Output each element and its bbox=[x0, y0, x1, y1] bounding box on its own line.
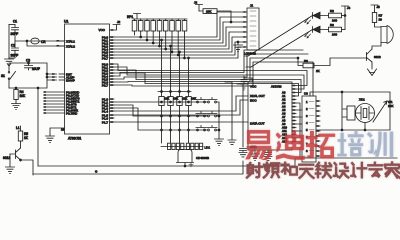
transistor Q1 9012 bbox=[3, 148, 21, 160]
svg-text:CR: CR bbox=[41, 40, 46, 44]
wire LED D2 feed diagonal bbox=[246, 30, 313, 68]
wire P2.0 long bus bbox=[114, 64, 307, 86]
svg-text:XTAL1: XTAL1 bbox=[66, 39, 75, 43]
wire U1 P1.7 to U2 DATA bbox=[114, 121, 248, 123]
resistor R7 bbox=[372, 11, 382, 27]
svg-text:10UF: 10UF bbox=[32, 67, 40, 71]
svg-text:CD4066B: CD4066B bbox=[196, 156, 209, 160]
wire keypad row3 bbox=[114, 108, 207, 131]
crystal CR1 bbox=[15, 38, 65, 44]
wire segment columns from P0 bbox=[161, 39, 190, 96]
pull-up rail bottom bbox=[158, 91, 191, 93]
U1 left pins P3 group bbox=[44, 90, 81, 115]
wire P0.3 bus to LCD pin4 bbox=[114, 27, 243, 46]
svg-text:10K: 10K bbox=[183, 97, 188, 101]
wire P2.5 to U3 bbox=[114, 54, 308, 79]
svg-text:XTAL2: XTAL2 bbox=[66, 44, 75, 48]
LED D1 bbox=[305, 12, 329, 24]
button S6 bbox=[207, 126, 217, 131]
resistor R8 10K (LCD contrast) bbox=[199, 9, 232, 23]
U1 left pin ALE bbox=[52, 75, 75, 79]
resistor network RP1 rail and VCC stub bbox=[127, 14, 187, 20]
J1 pin stubs bbox=[243, 11, 247, 48]
wire vertical to C5 bbox=[237, 84, 247, 157]
svg-text:J3: J3 bbox=[194, 1, 198, 5]
svg-text:1K: 1K bbox=[316, 69, 320, 73]
wire P2.4 to U3 bbox=[114, 50, 303, 76]
switch S1 bbox=[1, 68, 16, 88]
wire ground rail left bbox=[8, 25, 10, 59]
wire speaker to Q3 bbox=[372, 43, 381, 50]
capacitor C2 30PF bbox=[9, 41, 19, 58]
wire long bottom B bbox=[33, 161, 243, 174]
ground under R4 bbox=[12, 104, 21, 110]
power +5V speaker bbox=[371, 5, 380, 11]
resistor R6 base bbox=[297, 57, 366, 73]
wire P0.2 bus to LCD pin3 bbox=[114, 22, 243, 43]
resistor RP1-C bbox=[145, 19, 150, 40]
svg-text:19: 19 bbox=[61, 128, 65, 132]
wire long bottom A bbox=[38, 158, 397, 167]
U2 right pin stubs bbox=[292, 85, 296, 143]
U3 right pin stubs bbox=[316, 100, 320, 157]
ground near J1 bbox=[234, 41, 243, 52]
wire U1 P1.5 to U2 bbox=[114, 100, 248, 115]
svg-text:10K: 10K bbox=[206, 10, 211, 14]
resistor R4 10K bbox=[14, 87, 26, 103]
resistor R12 bbox=[177, 97, 188, 144]
svg-text:LD1: LD1 bbox=[205, 146, 211, 150]
wire P2.1 long bus bbox=[114, 67, 304, 89]
svg-text:R6: R6 bbox=[304, 59, 308, 63]
svg-text:J2: J2 bbox=[117, 20, 121, 24]
button S4 bbox=[207, 112, 217, 117]
junction dots RP to bus bbox=[140, 36, 186, 59]
resistor RP1-E bbox=[157, 19, 162, 46]
wire keypad row1 bbox=[114, 101, 207, 103]
svg-text:10K: 10K bbox=[174, 97, 179, 101]
IC U3 body (display driver) bbox=[302, 92, 316, 163]
svg-text:240: 240 bbox=[332, 19, 337, 23]
svg-text:EA/VP: EA/VP bbox=[66, 78, 75, 82]
resistor RP1-I bbox=[182, 19, 187, 58]
wire motor loop bbox=[310, 92, 390, 130]
power +5V LED common bbox=[342, 6, 351, 30]
wire P2.3 long bus bbox=[114, 73, 299, 96]
wire P0.6 bus to LCD pin7 bbox=[114, 42, 243, 55]
svg-text:10K: 10K bbox=[388, 104, 393, 108]
button S2 bbox=[207, 98, 217, 103]
U1 GND pin and ground bbox=[46, 128, 82, 143]
watermark row2 dark red text bbox=[247, 162, 400, 177]
svg-text:240: 240 bbox=[332, 33, 337, 37]
speaker LS1 bbox=[381, 26, 393, 44]
svg-text:9013: 9013 bbox=[374, 55, 381, 59]
capacitor C3 10UF bbox=[25, 59, 40, 72]
capacitor C1 30PF bbox=[11, 20, 19, 42]
resistor RP1-G bbox=[170, 19, 175, 52]
wire vertical to keypad area bbox=[225, 82, 236, 144]
wire P0.4 bus to LCD pin5 bbox=[114, 32, 243, 49]
watermark row1 red halo bbox=[245, 130, 335, 160]
resistor RP1-B bbox=[138, 19, 143, 37]
svg-text:R2: R2 bbox=[330, 9, 334, 13]
button S5 bbox=[196, 126, 206, 131]
wire reset loop bbox=[9, 62, 57, 88]
U1 right pins P1 group bbox=[102, 97, 114, 124]
ground under Q3 bbox=[368, 64, 377, 76]
button S1 bbox=[196, 98, 206, 103]
resistor R13 bbox=[186, 97, 197, 144]
U1 right pins P2 group bbox=[102, 62, 114, 87]
svg-text:P3.7/RD: P3.7/RD bbox=[66, 111, 78, 115]
wire P2.6 to R6 bbox=[114, 58, 298, 82]
svg-text:S1: S1 bbox=[1, 74, 5, 78]
svg-text:C1: C1 bbox=[13, 20, 17, 24]
power +5V stub for R8 bbox=[194, 1, 203, 12]
wire P0.1 bus to LCD pin2 bbox=[114, 17, 243, 40]
ground keypad bbox=[215, 139, 224, 146]
svg-text:R3: R3 bbox=[330, 23, 334, 27]
watermark row1 blue PEI XUN bbox=[337, 131, 393, 157]
svg-text:9013: 9013 bbox=[3, 156, 10, 160]
wire XTAL2 bbox=[26, 40, 64, 46]
wire keypad row2 bbox=[114, 105, 207, 117]
potentiometer arrow on M1 bbox=[364, 100, 393, 131]
svg-text:ADDRB: ADDRB bbox=[271, 85, 282, 89]
svg-text:10K: 10K bbox=[20, 94, 27, 98]
resistor R2 bbox=[329, 9, 346, 22]
IC U1 body (microcontroller AT89C51) bbox=[64, 20, 110, 135]
resistor RP1-D bbox=[151, 19, 156, 43]
wire LED D1 feed diagonal bbox=[244, 16, 313, 57]
IC U2 body (ADC0809) bbox=[248, 82, 292, 150]
svg-text:10K: 10K bbox=[165, 97, 170, 101]
connector J1 LCD body bbox=[244, 4, 259, 56]
wire P0.7 bus to LCD pin8 bbox=[114, 47, 243, 58]
resistor RP1-H bbox=[176, 19, 181, 55]
wire U1 P1.4 to U2 bbox=[114, 96, 248, 111]
wire P2.7 to U3 bbox=[114, 62, 313, 96]
wire emitter to bus bbox=[20, 159, 33, 175]
svg-text:XCAL OUT: XCAL OUT bbox=[250, 94, 265, 98]
svg-text:RP1: RP1 bbox=[127, 15, 133, 19]
svg-text:EOC: EOC bbox=[250, 99, 257, 103]
capacitor C5 under U2 bbox=[264, 150, 272, 161]
LED D2 bbox=[305, 26, 329, 38]
U1 left pin EA bbox=[52, 78, 75, 82]
wire left long vertical bbox=[37, 87, 39, 166]
M1 left terminal box bbox=[341, 91, 355, 131]
wire P0.0 bus to LCD pin1 bbox=[114, 12, 243, 37]
svg-text:VCC: VCC bbox=[99, 28, 106, 32]
svg-text:AT89C51: AT89C51 bbox=[68, 137, 81, 141]
svg-text:30PF: 30PF bbox=[11, 32, 19, 36]
resistor RP1-A bbox=[132, 19, 137, 35]
U1 left pin XTAL1 bbox=[57, 39, 76, 43]
svg-text:U3: U3 bbox=[304, 92, 308, 96]
ground under crystal rail bbox=[5, 58, 14, 66]
wire P2.2 long bus bbox=[114, 70, 301, 93]
svg-text:J4: J4 bbox=[347, 6, 351, 10]
transistor Q3 9013 bbox=[367, 49, 382, 64]
svg-text:XD1: XD1 bbox=[359, 98, 365, 102]
svg-text:U1: U1 bbox=[64, 20, 68, 24]
resistor R11 bbox=[168, 97, 179, 144]
resistor R3 bbox=[329, 23, 346, 36]
ground under Q1 bbox=[6, 154, 15, 174]
wire crystal top bbox=[9, 24, 15, 26]
svg-text:DATA OUT: DATA OUT bbox=[250, 122, 265, 126]
svg-text:P1.7: P1.7 bbox=[102, 120, 109, 124]
svg-text:VCC: VCC bbox=[250, 85, 257, 89]
connector LD1 display bbox=[161, 143, 210, 149]
watermark row1 red YI DI TUO bbox=[245, 130, 335, 160]
svg-text:P2.7: P2.7 bbox=[102, 83, 109, 87]
svg-text:J1: J1 bbox=[250, 4, 254, 8]
ground under U2 left bbox=[251, 150, 260, 161]
svg-text:10: 10 bbox=[379, 18, 383, 22]
wire keypad common bbox=[217, 102, 220, 139]
wire P0.5 bus to LCD pin6 bbox=[114, 37, 243, 52]
resistor R10 bbox=[159, 97, 170, 144]
button S3 bbox=[196, 112, 206, 117]
svg-text:J5: J5 bbox=[377, 5, 381, 9]
U1 left pin RST bbox=[52, 72, 72, 76]
resistor RP1-F bbox=[163, 19, 168, 49]
wire U2 to U3 jogs bbox=[296, 103, 302, 158]
motor M1 (crystal in can) bbox=[356, 98, 375, 123]
capacitor C4 at U2 VCC bbox=[240, 76, 252, 90]
svg-text:P0.7: P0.7 bbox=[102, 56, 109, 60]
svg-text:L1: L1 bbox=[16, 126, 20, 130]
buzzer BZ1 bbox=[177, 150, 210, 167]
resistor R5 1K bbox=[16, 126, 29, 148]
U1 left pin XTAL2 bbox=[57, 44, 76, 48]
svg-text:30PF: 30PF bbox=[11, 54, 19, 58]
U1 right pins P0 group bbox=[102, 35, 114, 60]
power +5V above U1 bbox=[99, 20, 121, 32]
svg-text:C2: C2 bbox=[11, 44, 15, 48]
